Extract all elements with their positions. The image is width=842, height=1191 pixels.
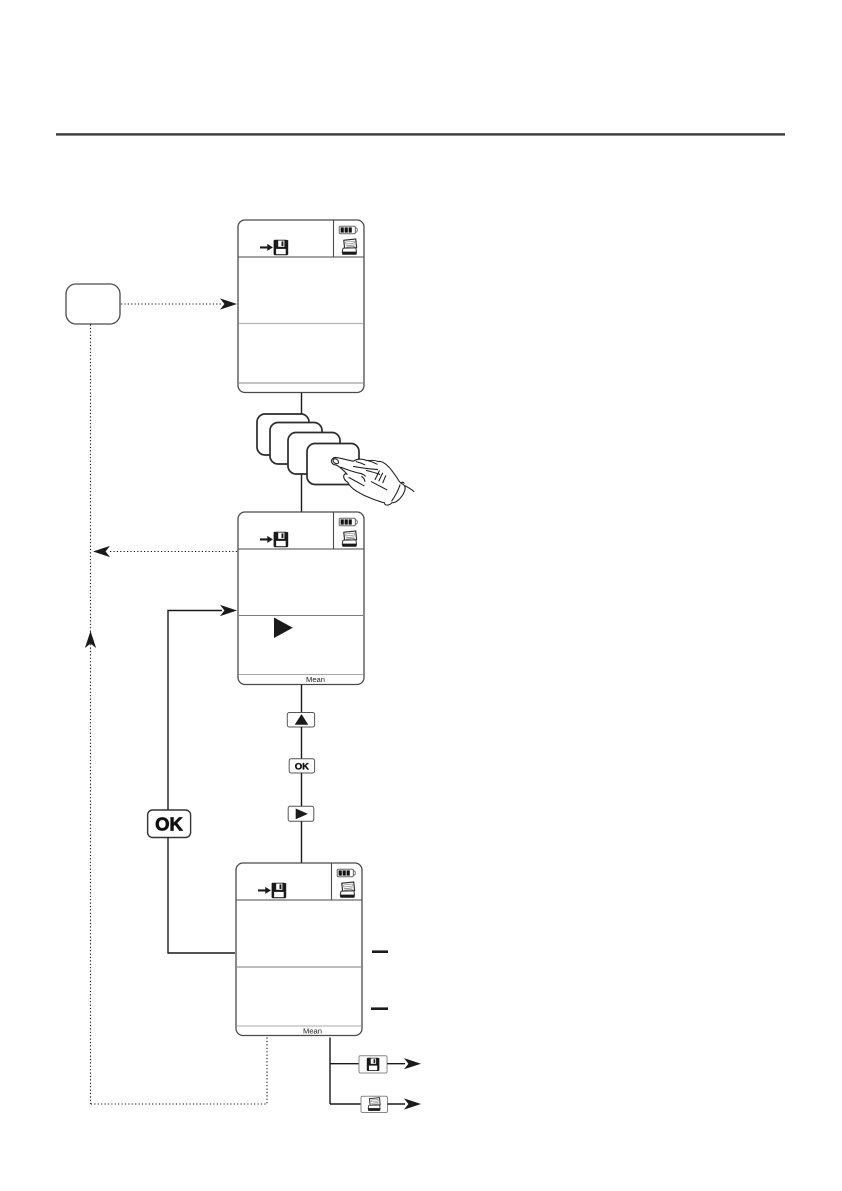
arrow from save box [387,1058,421,1069]
key stack button 2 [270,423,322,465]
arrow from print box [388,1098,422,1109]
screen 2 softkey strip line [239,674,363,676]
nail [332,458,339,465]
wire right key to screen 3 [301,821,303,863]
up key [287,713,314,728]
play triangle [274,618,293,639]
sleeve tail [405,486,414,492]
folded finger lines [354,466,378,469]
screen 1 [238,220,364,393]
left OK button [148,810,191,838]
value dash 2 [371,1007,388,1010]
screen 3 [236,863,362,1036]
right key [288,806,314,821]
svg-text:Mean: Mean [303,1027,322,1036]
wire ok key to right key [301,773,303,806]
screen 3 mid divider [237,966,361,968]
cuff lines [401,481,404,484]
wire screen2 to up key [301,685,303,713]
wire to save box [330,1063,359,1065]
start button B1 [66,284,120,324]
wire up key to ok key [301,727,303,759]
dotted arrow screen2 to return line [93,546,237,557]
wire screen1 to key stack [301,393,303,513]
thumb crease [349,478,364,486]
index underside lines [341,467,365,476]
screen 2 [238,512,364,685]
print box [361,1096,388,1112]
pressing hand [331,457,414,505]
screen 1 softkey strip line [239,382,363,384]
shading strokes [375,471,379,480]
svg-text:OK: OK [295,762,309,773]
svg-text:Mean: Mean [306,675,325,684]
screen 3 softkey strip line [237,1025,361,1027]
key stack button 3 [288,433,340,475]
solid arrow into screen 2 [168,605,237,810]
dotted vertical return line [90,325,92,1105]
top rule [56,133,785,135]
dotted bottom return path [91,1038,268,1105]
svg-text:OK: OK [155,814,183,835]
dotted arrow B1 to screen 1 [121,298,237,309]
wire to print box [330,1103,361,1105]
wire OK button to screen 3 [168,838,235,954]
ok key [289,759,314,773]
key stack button 4 [307,444,359,485]
screen 2 mid divider [239,615,363,617]
screen 1 mid divider [239,323,363,325]
wire screen3 down [329,1038,331,1105]
key stack button 1 [257,414,309,455]
up arrowhead on return line [85,631,96,648]
value dash 1 [372,950,388,953]
save box [359,1056,387,1073]
knuckle creases [356,462,365,465]
